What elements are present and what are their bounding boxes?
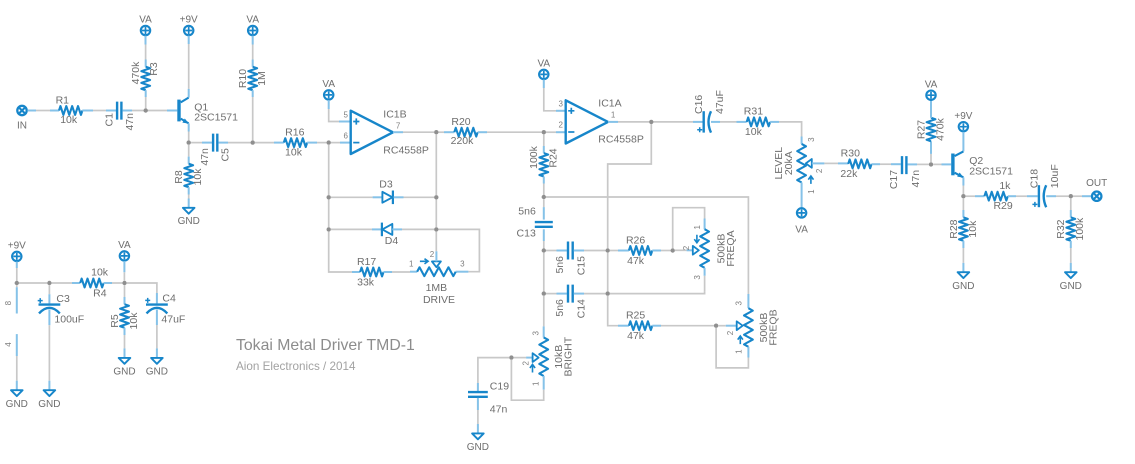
svg-text:C13: C13 — [517, 227, 536, 239]
svg-text:2: 2 — [682, 245, 691, 250]
svg-text:4: 4 — [4, 342, 13, 347]
node junction R20/IC1A-pin2/R24 — [542, 130, 546, 134]
svg-text:10uF: 10uF — [1049, 164, 1061, 188]
svg-text:2: 2 — [726, 330, 735, 335]
wire C19 to ground — [477, 398, 479, 434]
capacitor C17 47n — [888, 156, 922, 189]
svg-text:470k: 470k — [130, 61, 142, 85]
svg-text:2SC1571: 2SC1571 — [969, 165, 1013, 177]
svg-text:1: 1 — [693, 224, 702, 229]
svg-text:5: 5 — [344, 110, 349, 119]
svg-text:VA: VA — [925, 79, 938, 90]
svg-text:100k: 100k — [1074, 217, 1086, 241]
supply VA (below LEVEL) — [795, 208, 808, 236]
wire C5 to R10 junction — [218, 142, 250, 144]
svg-text:10k: 10k — [967, 220, 979, 238]
ground (below R28) — [952, 272, 974, 292]
potentiometer BRIGHT 10kB — [514, 326, 575, 389]
supply +9V (Q2 collector) — [954, 111, 972, 131]
svg-text:5n6: 5n6 — [518, 205, 536, 217]
wire row1 junction to C15 — [546, 250, 567, 252]
svg-text:D4: D4 — [385, 235, 399, 247]
svg-text:C3: C3 — [56, 293, 70, 305]
resistor R31 10k — [744, 106, 770, 138]
svg-text:1: 1 — [734, 349, 743, 354]
potentiometer FREQA 500kB — [675, 219, 737, 292]
svg-text:R17: R17 — [357, 256, 376, 268]
wire junction to IC1A pin2 — [546, 131, 566, 133]
resistor R8 10k — [173, 145, 204, 208]
ground (below R32) — [1060, 272, 1082, 292]
svg-text:GND: GND — [38, 399, 60, 410]
svg-text:IN: IN — [17, 121, 27, 132]
svg-text:+9V: +9V — [954, 111, 972, 122]
wire D4 row left — [331, 228, 382, 230]
svg-text:10k: 10k — [192, 168, 204, 186]
node junction VA rail/R4/R5/C4 — [122, 281, 126, 285]
svg-text:C4: C4 — [162, 292, 176, 304]
svg-text:R4: R4 — [93, 288, 107, 300]
wire R30 to C17 — [872, 163, 901, 165]
wire D3 row right — [394, 196, 434, 198]
svg-text:R29: R29 — [993, 200, 1012, 212]
svg-text:GND: GND — [178, 216, 200, 227]
svg-text:R31: R31 — [744, 106, 763, 118]
wire left rail D3 to D4 — [328, 200, 330, 228]
wire feedback rail D4 to wiper — [435, 232, 437, 252]
svg-text:3: 3 — [734, 300, 743, 305]
svg-text:GND: GND — [113, 367, 135, 378]
resistor R30 22k — [840, 148, 871, 181]
wire VA to IC1A pin3 — [544, 80, 566, 111]
wire C1 to Q1 base — [123, 110, 178, 112]
svg-text:RC4558P: RC4558P — [383, 144, 429, 156]
svg-text:6: 6 — [344, 131, 349, 140]
svg-text:R30: R30 — [841, 148, 860, 160]
wire feedback rail row1 to row2 — [607, 253, 609, 292]
node junction Q2-emitter/R28/R29 — [961, 194, 965, 198]
wire LEVEL wiper to R30 — [824, 162, 848, 164]
ground (below C4) — [146, 358, 168, 378]
wire C13 rail row2 down to BRIGHT pin3 — [543, 296, 545, 327]
diode D3 — [379, 179, 393, 204]
svg-text:VA: VA — [139, 15, 152, 26]
wire rail to C4 — [127, 283, 157, 303]
svg-text:1: 1 — [611, 111, 616, 120]
wire pin6 junction down left rail — [328, 145, 330, 195]
svg-text:47uF: 47uF — [714, 90, 726, 114]
svg-text:7: 7 — [396, 122, 401, 131]
wire C15 to row1 mid junction — [574, 250, 606, 252]
wire D4 row right — [392, 228, 434, 230]
resistor R27 470k — [915, 100, 946, 162]
node junction C5/R10/R16 — [251, 140, 255, 144]
svg-text:VA: VA — [795, 225, 808, 236]
svg-text:100k: 100k — [528, 145, 540, 169]
svg-text:47n: 47n — [124, 113, 136, 131]
wire IN to R1 — [28, 110, 60, 112]
svg-text:C15: C15 — [576, 256, 588, 275]
resistor R26 47k — [610, 234, 671, 267]
svg-text:47n: 47n — [910, 170, 922, 188]
wire R16 to IC1B pin6 junction — [307, 142, 326, 144]
transistor Q1 2SC1571 — [177, 98, 238, 124]
resistor R1 10k — [56, 95, 83, 127]
wire C14 to FREQA pin3 — [574, 291, 705, 293]
wire VA to IC1B pin5 — [329, 100, 351, 121]
wire output junction down to D3 row — [435, 134, 437, 195]
svg-text:RC4558P: RC4558P — [598, 133, 644, 145]
svg-text:R1: R1 — [56, 95, 70, 107]
svg-text:C17: C17 — [888, 170, 900, 189]
capacitor C16 47uF electrolytic — [693, 90, 726, 133]
transistor Q2 2SC1571 — [951, 132, 1013, 178]
wire junction to FREQB pin3 riser — [546, 197, 748, 294]
resistor R32 100k — [1055, 198, 1086, 272]
wire Q1 emitter down to node — [188, 123, 190, 140]
capacitor C18 10uF electrolytic — [1028, 164, 1060, 207]
svg-text:2SC1571: 2SC1571 — [194, 112, 238, 124]
capacitor C14 5n6 — [554, 285, 588, 319]
svg-text:VA: VA — [537, 59, 550, 70]
svg-text:VA: VA — [246, 15, 259, 26]
capacitor C4 47uF electrolytic — [145, 292, 185, 325]
node junction C13-rail/C14 row — [542, 291, 546, 295]
wire R31 to LEVEL pin3 — [770, 122, 802, 144]
wire C16 to R31 — [711, 121, 747, 123]
node junction R16/IC1B-pin6/feedback — [327, 140, 331, 144]
wire base junction to Q2 — [933, 163, 951, 165]
svg-text:10k: 10k — [745, 126, 763, 138]
wire R1 to C1 — [82, 110, 116, 112]
ground (below C3) — [38, 390, 60, 410]
supply VA (power section) — [118, 240, 131, 261]
wire R3 to junction — [145, 90, 147, 108]
svg-text:3: 3 — [460, 259, 465, 268]
svg-text:5n6: 5n6 — [554, 299, 566, 317]
wire FREQB pin1 loop — [716, 328, 748, 368]
resistor R4 10k — [80, 267, 122, 300]
wire +9V to Q1 collector — [188, 36, 190, 98]
svg-text:47n: 47n — [490, 404, 508, 416]
svg-text:47k: 47k — [627, 255, 645, 267]
wire C18 to OUT junction — [1046, 195, 1068, 197]
node junction R3/C1/Q1-base — [144, 108, 148, 112]
wire C17 to base junction — [908, 163, 929, 165]
wire C4 to ground — [156, 310, 158, 358]
svg-text:DRIVE: DRIVE — [423, 294, 455, 306]
node junction R25/FREQB wiper/pin1 loop — [714, 324, 718, 328]
diode D4 — [382, 223, 398, 248]
svg-text:2: 2 — [815, 168, 824, 173]
capacitor C15 5n6 — [554, 242, 588, 276]
node junction feedback-rail/D3 cathode — [434, 195, 438, 199]
svg-text:R24: R24 — [547, 148, 559, 167]
svg-text:VA: VA — [322, 79, 335, 90]
wire IC1A feedback elbow down to row1 — [608, 124, 652, 248]
wire D4 junction to pot pin3 riser — [439, 229, 480, 271]
svg-text:Aion Electronics / 2014: Aion Electronics / 2014 — [236, 360, 356, 373]
wire wiper junction to C19 — [478, 358, 509, 392]
resistor R28 10k — [948, 198, 979, 272]
svg-text:8: 8 — [4, 300, 13, 305]
svg-text:R25: R25 — [626, 310, 645, 322]
IC power pin 8 stub — [4, 285, 17, 313]
node junction left-rail/D3 anode — [327, 195, 331, 199]
node junction feedback/C15/R26 — [606, 248, 610, 252]
svg-text:100uF: 100uF — [54, 313, 84, 325]
svg-text:GND: GND — [6, 399, 28, 410]
wire junction to IC1B pin6 — [331, 142, 351, 144]
svg-text:C16: C16 — [693, 95, 705, 114]
svg-text:22k: 22k — [840, 168, 858, 180]
svg-text:2: 2 — [522, 361, 531, 366]
node junction C14-row/feedback rail — [606, 291, 610, 295]
svg-text:R20: R20 — [451, 116, 470, 128]
supply VA (above R27) — [925, 79, 938, 100]
svg-text:3: 3 — [807, 137, 816, 142]
svg-text:D3: D3 — [379, 179, 393, 191]
svg-text:C5: C5 — [220, 148, 232, 162]
svg-text:Tokai Metal Driver TMD-1: Tokai Metal Driver TMD-1 — [236, 337, 415, 354]
wire IC1A output — [608, 121, 649, 123]
svg-text:R5: R5 — [109, 314, 121, 328]
svg-text:GND: GND — [467, 442, 489, 453]
svg-text:BRIGHT: BRIGHT — [563, 336, 575, 376]
wire rail +9V to C3 — [19, 282, 47, 284]
wire VA to R3 — [145, 36, 147, 67]
wire left rail D4 to R17 row — [329, 232, 352, 272]
svg-text:3: 3 — [559, 100, 564, 109]
resistor R20 220k — [439, 116, 542, 147]
supply VA (above R3) — [139, 15, 152, 35]
svg-text:GND: GND — [1060, 281, 1082, 292]
supply +9V (power section) — [8, 241, 26, 262]
svg-text:3: 3 — [693, 275, 702, 280]
svg-text:R27: R27 — [915, 120, 927, 139]
node junction C13/C15-row/left-rail — [542, 248, 546, 252]
capacitor C5 47n — [199, 134, 232, 166]
node junction rail/C3 — [47, 281, 51, 285]
wire row1 rail to row2 rail (left) — [543, 253, 545, 292]
svg-text:33k: 33k — [357, 277, 375, 289]
svg-text:2: 2 — [559, 121, 564, 130]
potentiometer FREQB 500kB — [718, 294, 779, 358]
svg-text:VA: VA — [118, 240, 131, 251]
supply +9V (Q1 collector) — [180, 15, 198, 35]
svg-text:1M: 1M — [256, 71, 268, 86]
wire VA down to rail — [123, 261, 125, 281]
svg-text:47n: 47n — [199, 148, 211, 166]
svg-text:10k: 10k — [60, 114, 78, 126]
wire junction to C16 — [654, 121, 703, 123]
svg-text:+9V: +9V — [180, 15, 198, 26]
node junction IC1B-out/R20/feedback — [434, 130, 438, 134]
svg-text:R28: R28 — [948, 219, 960, 238]
svg-text:R32: R32 — [1055, 219, 1067, 238]
node OUT (output jack) — [1086, 178, 1107, 201]
wire pot pin3 lead — [456, 271, 469, 273]
svg-text:R16: R16 — [285, 126, 304, 138]
supply VA (above R10) — [246, 15, 259, 35]
svg-text:5n6: 5n6 — [554, 256, 566, 274]
ground (pin 4) — [6, 390, 28, 410]
svg-text:FREQA: FREQA — [725, 230, 737, 266]
svg-text:FREQB: FREQB — [767, 309, 779, 345]
wire R10 node to R16 — [255, 142, 284, 144]
svg-text:R26: R26 — [626, 234, 645, 246]
wire junction to OUT — [1073, 195, 1092, 197]
node junction C18/R32/OUT — [1069, 194, 1073, 198]
ground (below R8) — [178, 208, 200, 227]
ground (below C19) — [467, 433, 489, 453]
op-amp IC1B RC4558P — [344, 108, 429, 156]
node junction R26/FREQA wiper/pin1 loop — [671, 248, 675, 252]
svg-text:+9V: +9V — [8, 241, 26, 252]
svg-text:C18: C18 — [1028, 169, 1040, 188]
svg-text:OUT: OUT — [1086, 178, 1107, 189]
wire feedback rail row2 to R25 — [608, 296, 618, 326]
node junction R24/C13/tone-row — [542, 195, 546, 199]
svg-text:C1: C1 — [103, 113, 115, 127]
svg-text:R3: R3 — [148, 62, 160, 76]
svg-text:R10: R10 — [237, 69, 249, 88]
supply VA (above IC1A) — [537, 59, 550, 80]
svg-text:47k: 47k — [627, 330, 645, 342]
resistor R5 10k — [109, 285, 140, 358]
svg-text:1k: 1k — [999, 180, 1011, 192]
potentiometer DRIVE 1MB — [409, 250, 465, 306]
wire IC1B output to R20 — [393, 131, 434, 133]
resistor R3 470k — [130, 61, 160, 90]
title block — [236, 337, 415, 373]
capacitor C3 100uF electrolytic — [38, 285, 84, 325]
svg-text:IC1A: IC1A — [598, 98, 621, 110]
node junction C17/R27/Q2-base — [929, 162, 933, 166]
node junction feedback-rail/D4 anode — [434, 227, 438, 231]
resistor R17 33k — [352, 256, 410, 289]
node junction IC1A-out/C16/feedback — [649, 120, 653, 124]
svg-text:2: 2 — [430, 250, 435, 259]
svg-text:1: 1 — [409, 259, 414, 268]
wire emitter node to C5 — [191, 142, 212, 144]
svg-text:GND: GND — [146, 367, 168, 378]
op-amp IC1A RC4558P — [559, 98, 644, 146]
node junction BRIGHT wiper/C19/pin1 loop — [509, 355, 513, 359]
node IN (input jack) — [17, 106, 27, 132]
svg-text:1: 1 — [532, 381, 541, 386]
wire feedback rail D3 to D4 — [435, 200, 437, 228]
svg-text:R8: R8 — [173, 170, 185, 184]
svg-text:20kA: 20kA — [783, 151, 795, 175]
svg-text:10k: 10k — [128, 312, 140, 330]
resistor R24 100k — [528, 134, 560, 194]
svg-text:10k: 10k — [285, 146, 303, 158]
node junction Q1-emitter/R8/C5 — [187, 140, 191, 144]
svg-text:C19: C19 — [490, 380, 509, 392]
svg-text:C14: C14 — [576, 299, 588, 318]
IC power pin 4 stub — [4, 334, 17, 390]
svg-text:47uF: 47uF — [161, 313, 185, 325]
resistor R29 1k — [966, 180, 1038, 212]
svg-text:GND: GND — [952, 281, 974, 292]
svg-text:1: 1 — [807, 189, 816, 194]
wire C3 to ground — [48, 310, 50, 391]
svg-text:1MB: 1MB — [426, 282, 448, 294]
node junction +9V rail/pin8 — [15, 281, 19, 285]
svg-text:10k: 10k — [91, 267, 109, 279]
svg-text:220k: 220k — [451, 135, 475, 147]
node junction left-rail/D4 cathode — [327, 227, 331, 231]
capacitor C13 5n6 — [517, 199, 553, 248]
capacitor C1 47n — [103, 102, 136, 131]
capacitor C19 47n — [468, 380, 509, 415]
supply VA (above IC1B) — [322, 79, 335, 100]
wire rail C3 to R4 — [52, 282, 81, 284]
svg-text:470k: 470k — [934, 117, 946, 141]
resistor R16 10k — [284, 126, 307, 158]
resistor R10 1M — [237, 36, 268, 141]
wire +9V down to rail — [16, 262, 18, 281]
svg-text:IC1B: IC1B — [383, 108, 406, 120]
svg-text:3: 3 — [532, 331, 541, 336]
wire FREQA pin1 loop — [673, 208, 705, 249]
wire Q2 emitter down — [962, 177, 964, 194]
wire row2 junction to C14 — [546, 293, 567, 295]
resistor R25 47k — [618, 310, 714, 343]
ground (below R5) — [113, 358, 135, 378]
potentiometer LEVEL 20kA — [773, 137, 824, 208]
wire D3 row left — [331, 196, 383, 198]
wire BRIGHT pin1 loop — [511, 360, 543, 400]
